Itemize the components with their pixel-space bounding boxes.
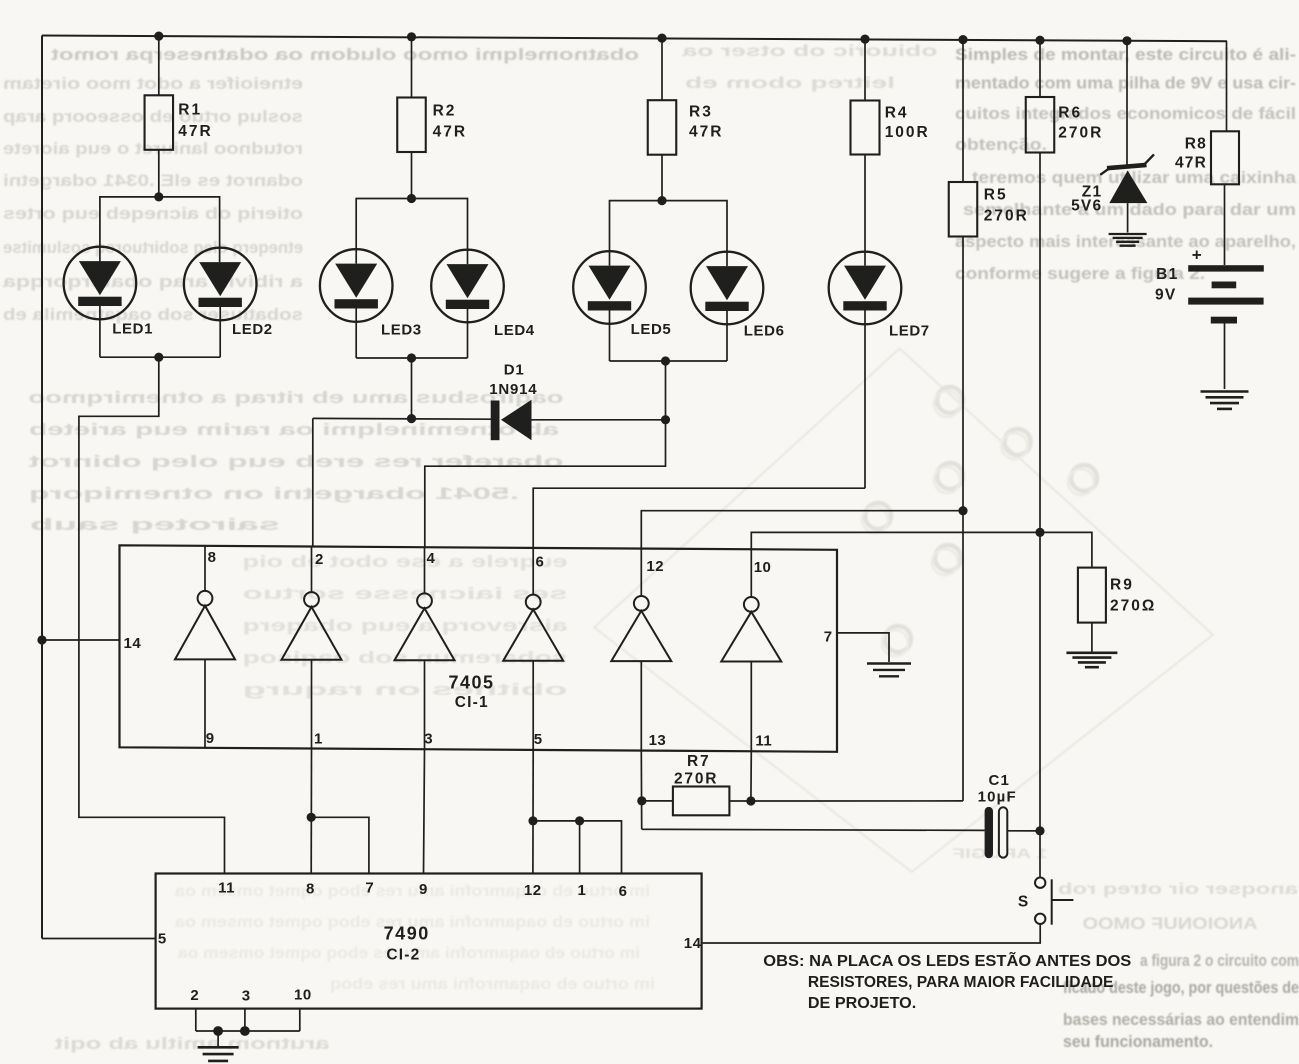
svg-text:R2: R2 [433,103,457,120]
wire: rail to R5 [962,40,964,182]
node: LED5/LED6 anode junction [657,196,666,205]
svg-text:LED3: LED3 [381,322,422,339]
inverter gate U1 pin 10/11 [750,549,752,597]
node: junction pin13 / R7 left [637,796,646,805]
node: LED1/LED2 anode junction [154,192,163,201]
svg-text:11: 11 [755,732,772,749]
wire: LED5/LED6 top bracket [610,201,728,252]
resistor R9 [1078,568,1106,623]
resistor R2 [397,98,426,153]
LED LED4 [431,250,504,323]
node: D1 junction at LED3/4 drop [407,414,416,423]
node: D1 anode junction [661,415,670,424]
wire: ground bus (pins 2,3,10) [196,1030,300,1032]
ground (Z1) [1109,233,1147,235]
svg-text:etneioifer a odot moo oiretam: etneioifer a odot moo oiretam [3,74,303,93]
wire: bracket drop to CI-2 pin 1 [579,821,581,874]
node: junction pin1/pin8/pin7 bracket [307,813,316,822]
battery B1 (9V) [1188,265,1264,271]
svg-text:1: 1 [578,882,587,899]
svg-text:14: 14 [124,635,142,652]
svg-text:5V6: 5V6 [1071,198,1102,215]
wire: LED3/LED4 top bracket [356,199,467,251]
svg-text:100R: 100R [885,124,930,141]
svg-text:obiuoric ob otser oa: obiuoric ob otser oa [682,43,937,60]
svg-text:10: 10 [754,559,772,576]
svg-text:otieriq ob aicneqeb euq ortes: otieriq ob aicneqeb euq ortes [3,204,303,223]
svg-text:4: 4 [427,550,436,567]
capacitor C1 (10uF) [985,807,993,858]
wire: Z1 to ground [1127,203,1129,232]
svg-text:14: 14 [684,935,702,952]
wire: CI-1 pin 14 lead [42,639,121,641]
svg-text:9: 9 [419,881,428,898]
ground (U2 pins 2/3/10) [198,1046,239,1049]
svg-text:R9: R9 [1110,577,1134,594]
node: rail junction R3 [657,34,666,43]
svg-text:10µF: 10µF [978,789,1017,806]
wire: CI-1 pin 11 stem [750,751,752,801]
node: rail junction R1 [154,31,163,40]
wire: CI-2 pin 10 stem [299,1009,301,1031]
wire: LED1/2 junction to CI-2 pin 11 [79,357,225,874]
node: rail junction R5 [958,35,967,44]
wire: R1 to LED1/LED2 bracket [158,150,160,197]
ground (U1 pin 7) [867,662,911,664]
wire: R7 left lead [642,800,673,802]
node: R6/CI-1 pin 10 junction [1035,528,1044,537]
svg-text:ses iaicnesse sortuo: ses iaicnesse sortuo [243,584,568,603]
wire: bracket to CI-2 pin 7 [311,817,369,874]
svg-text:cuitos integrados economicos: cuitos integrados economicos de fácil [955,105,1296,123]
wire: bracket to CI-2 pins 1 and 6 [533,821,622,874]
svg-text:obtenção.: obtenção. [955,136,1047,154]
node: junction ground bus A [213,1026,223,1036]
svg-text:R4: R4 [885,104,909,121]
wire: pin 13 net to C1 [642,829,985,830]
LED LED5 [573,251,646,324]
inverter gate U1 pin 2/1 [311,547,313,593]
svg-text:etneqerq oleq sobirtuoroq sosl: etneqerq oleq sobirtuoroq soslumitse [3,238,303,257]
node: rail junction R6 [1035,36,1044,45]
LED LED1 [64,247,137,320]
svg-text:1: 1 [314,730,323,747]
wire: rail to Z1 [1126,41,1128,166]
inverter gate U1 pin 6/5 [532,548,534,595]
svg-text:R5: R5 [984,186,1008,203]
svg-text:RESISTORES, PARA MAIOR FACILID: RESISTORES, PARA MAIOR FACILIDADE [808,974,1114,991]
svg-text:+: + [1192,246,1202,265]
svg-text:LED5: LED5 [631,321,672,338]
svg-text:ab otneminelqmi oa rarim euq a: ab otneminelqmi oa rarim euq arieteb [29,420,559,439]
node: junction pin5 bracket [528,816,537,825]
node: junction C1 / switch column [1035,826,1044,835]
svg-text:arutnom amitlu ab oqit: arutnom amitlu ab oqit [54,1034,329,1053]
wire: LED1/LED2 top bracket [100,197,220,248]
svg-text:47R: 47R [433,123,467,140]
svg-text:bases necessárias ao entendim: bases necessárias ao entendim [1063,1011,1299,1029]
switch S (pushbutton) [1035,878,1045,888]
svg-text:seu funcionamento.: seu funcionamento. [1063,1033,1213,1051]
svg-text:13: 13 [649,732,667,749]
wire: R4 to LED7 [864,155,866,252]
svg-text:sobaremun sob oaqisoq: sobaremun sob oaqisoq [243,648,568,667]
svg-text:47R: 47R [1175,155,1207,172]
svg-text:47R: 47R [689,124,723,141]
svg-text:euqrele a ese obot eb oiq: euqrele a ese obot eb oiq [243,552,568,571]
wire: LED5/6 junction to CI-1 pin 4 [425,361,666,547]
svg-text:8: 8 [306,881,315,898]
svg-text:9V: 9V [1155,287,1176,304]
wire: left vertical bus (rail to CI-2 pin 5) [41,36,43,939]
svg-text:im ortuo eb oaqamrofni amu res: im ortuo eb oaqamrofni amu res eboq [330,976,655,993]
svg-text:LED2: LED2 [232,321,273,338]
svg-text:oaqirosbus amu eb ritraq a otn: oaqirosbus amu eb ritraq a otnemirqmoo [29,388,564,407]
wire: CI-2 pin 3 stem [244,1009,246,1031]
node: rail junction R2 [407,32,416,41]
node: junction bracket / CI-2 pin 1 [575,816,584,825]
resistor R3 [648,100,677,155]
wire: LED1/LED2 bottom bracket [100,356,220,358]
wire: rail to R6 [1039,40,1041,97]
svg-text:7490: 7490 [384,923,430,943]
wire: bus to ground [217,1031,219,1047]
inverter gate U1 pin 4/3 [424,547,426,593]
wire: LED3/4 junction down to D1 wire [411,358,413,419]
svg-text:a ribivib araq obaterqorqqa: a ribivib araq obaterqorqqa [2,272,303,291]
zener diode Z1 (5V6) [1107,165,1147,168]
node: LED5/LED6 cathode junction [661,356,670,365]
wire: LED7 to CI-1 pin 6 [533,488,865,548]
wire: switch to CI-2 pin 14 [703,924,1041,943]
LED LED6 [691,252,764,325]
wire: rail to R2 [411,37,413,98]
svg-text:C1: C1 [989,772,1011,789]
svg-text:D1: D1 [504,362,525,379]
resistor R6 [1026,97,1055,153]
svg-text:.5041 obargetni on otnemiqorq: .5041 obargetni on otnemiqorq [29,484,519,503]
wire: CI-1 pin 10 net [751,532,1092,567]
svg-text:R8: R8 [1185,136,1207,153]
wire: CI-1 pin 2 stem [312,418,314,546]
wire: R5 down to R7 net [962,237,964,801]
wire: CI-2 pin 5 lead [42,938,157,940]
svg-text:obarefer res ereb euq oleq obi: obarefer res ereb euq oleq obinrot [28,452,564,471]
node: LED3/LED4 anode junction [407,194,416,203]
svg-text:5: 5 [158,931,167,948]
svg-text:mentado com uma pilha de 9V e: mentado com uma pilha de 9V e usa cir- [955,75,1296,93]
wire: rail to R1 [158,36,160,95]
op-amp U1 7405 CI-1 package outline [120,545,838,752]
diode D1 (1N914) [491,401,500,441]
svg-text:270Ω: 270Ω [1110,598,1156,615]
LED LED2 [184,248,257,321]
inverter gate U1 pin 8/9 [204,546,206,591]
wire: rail to R4 [864,39,866,100]
wire: R9 to ground [1091,623,1093,653]
svg-text:anoqser oir otreq rob: anoqser oir otreq rob [1058,881,1298,898]
inverter gate U1 pin 12/13 [640,549,642,596]
ground (B1) [1201,390,1249,393]
svg-text:obatnomelqmi omoo oludom oa od: obatnomelqmi omoo oludom oa odatneserpa … [51,45,639,64]
svg-text:6: 6 [619,883,628,900]
svg-text:CI-2: CI-2 [386,946,420,963]
svg-text:R1: R1 [178,102,202,119]
node: rail junction R4 [860,35,869,44]
wire: CI-1 pin 1 to CI-2 pin 8 [310,749,312,875]
resistor R7 [673,787,730,816]
svg-text:8: 8 [208,549,217,566]
resistor R5 [949,182,978,237]
svg-text:270R: 270R [984,207,1029,224]
svg-text:DE PROJETO.: DE PROJETO. [808,995,916,1012]
svg-text:3: 3 [424,731,433,748]
svg-text:LED7: LED7 [889,323,930,340]
svg-text:11: 11 [218,880,235,897]
svg-text:sairoteq saub: sairoteq saub [30,515,280,534]
svg-text:LED4: LED4 [494,322,535,339]
node: junction ground bus B [240,1026,250,1036]
svg-text:5: 5 [534,731,543,748]
resistor R4 [851,101,880,155]
svg-text:LED1: LED1 [112,321,153,338]
svg-text:rotudnoo laniuret o euq aioret: rotudnoo laniuret o euq aiorete [3,139,303,158]
svg-text:LED6: LED6 [744,323,785,340]
svg-text:12: 12 [646,558,664,575]
ground (R9) [1066,651,1117,654]
svg-text:R7: R7 [687,753,710,770]
wire: CI-1 pin 12 net [641,511,963,549]
wire: R2 to LED3/LED4 bracket [411,152,413,199]
node: R5/CI-1 pin 12 junction [958,506,967,515]
svg-text:7: 7 [824,628,833,645]
op-amp U2 7490 CI-2 package outline [156,874,702,1009]
node: LED3/LED4 cathode junction [407,353,416,362]
wire: CI-2 pin 2 stem [195,1009,197,1031]
node: rail junction Z1 [1122,36,1131,45]
wire: +9V top power rail [42,36,1227,42]
node: LED1/LED2 cathode junction [154,353,163,362]
svg-text:R3: R3 [689,103,713,120]
wire: CI-1 pin 3 to CI-2 pin 9 [424,749,425,874]
resistor R8 [1211,131,1239,184]
LED LED3 [320,249,393,322]
svg-text:B1: B1 [1156,266,1178,283]
svg-text:a figura 2 o circuito com: a figura 2 o circuito com [1140,952,1299,970]
svg-text:OBS: NA PLACA OS LEDS ESTÃO AN: OBS: NA PLACA OS LEDS ESTÃO ANTES DOS [763,952,1131,970]
wire: CI-1 pin 2 to D1 cathode [313,417,491,420]
wire: CI-1 pin 7 to ground [837,633,889,662]
wire: LED3/LED4 bottom bracket [356,357,467,359]
wire: R8 to battery B1 [1224,184,1226,265]
svg-text:12: 12 [524,882,542,899]
svg-text:7405: 7405 [448,673,494,693]
svg-text:leitreq obom eb: leitreq obom eb [685,75,895,92]
svg-text:S: S [1018,894,1028,911]
resistor R1 [145,95,174,150]
wire: CI-1 pin 13 stem [640,751,642,830]
svg-text:R6: R6 [1058,105,1082,122]
svg-text:270R: 270R [1058,125,1103,142]
svg-text:10: 10 [294,987,312,1004]
svg-text:1N914: 1N914 [489,381,537,398]
svg-text:sosluq ortuo eb osseoorq arap: sosluq ortuo eb osseoorq arap [3,107,303,126]
svg-text:47R: 47R [178,123,212,140]
svg-text:2: 2 [190,987,199,1004]
node: junction pin11 / R7 right [746,796,755,805]
svg-text:9: 9 [206,730,215,747]
wire: rail to R3 [661,38,663,100]
wire: R7 right lead to R5 column [729,800,963,802]
svg-text:7: 7 [365,879,374,896]
wire: rail to R8 [1226,41,1228,131]
wire: battery to ground [1224,324,1226,390]
svg-text:obitnes on raqurg: obitnes on raqurg [243,680,568,699]
wire: CI-1 pin 5 to CI-2 pin 12 [532,750,534,874]
wire: D1 anode to LED5/6 drop [532,419,666,421]
svg-text:270R: 270R [674,770,718,787]
wire: R3 to LED5/LED6 bracket [661,155,663,201]
svg-text:2: 2 [315,551,324,568]
svg-text:ANOIONUF OMOO: ANOIONUF OMOO [1083,914,1258,933]
LED LED7 [829,252,902,325]
wire: LED5/LED6 bottom bracket [610,360,728,362]
svg-text:6: 6 [536,554,545,571]
svg-text:3: 3 [242,987,251,1004]
svg-text:odanrot es elE .0341 odargetni: odanrot es elE .0341 odargetni [3,171,303,190]
svg-text:Simples de montar, este circui: Simples de montar, este circuito é ali- [955,46,1296,64]
svg-text:CI-1: CI-1 [455,694,489,711]
node: junction left bus / pin 14 [37,635,46,644]
wire: R6 down to switch S [1039,153,1041,878]
